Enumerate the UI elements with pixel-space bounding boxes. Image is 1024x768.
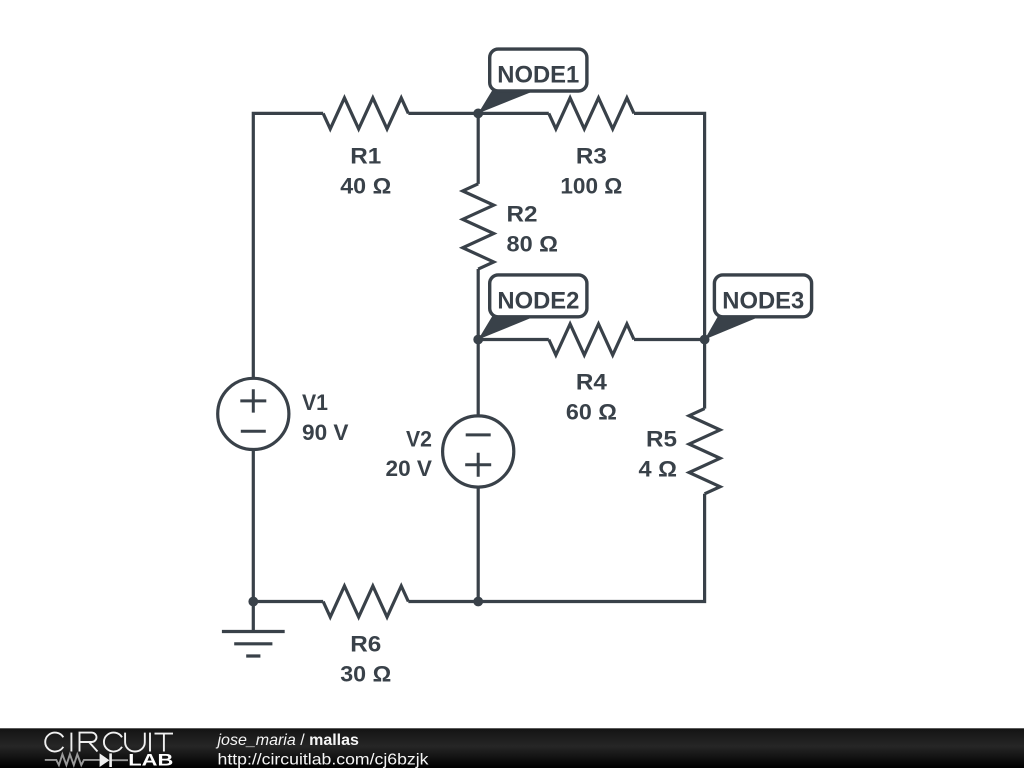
svg-text:http://circuitlab.com/cj6bzjk: http://circuitlab.com/cj6bzjk — [218, 751, 430, 768]
svg-text:20 V: 20 V — [386, 456, 433, 481]
wire NODE2 to R4 — [478, 338, 549, 341]
callout tail NODE1 — [478, 90, 531, 114]
svg-text:90 V: 90 V — [302, 420, 349, 445]
wire R1 to node NODE1 — [408, 112, 478, 115]
svg-text:V1: V1 — [302, 390, 328, 415]
wire NODE3 down to R5 — [703, 340, 706, 409]
ground symbol — [222, 602, 285, 657]
svg-text:NODE2: NODE2 — [497, 287, 579, 314]
svg-text:NODE3: NODE3 — [722, 287, 804, 314]
callout tail NODE2 — [478, 316, 531, 340]
V1 plus sign — [240, 389, 266, 412]
wire V2 to bottom wire — [477, 487, 480, 601]
svg-text:NODE1: NODE1 — [497, 61, 579, 88]
callout box NODE3 — [714, 275, 811, 317]
V1 minus sign — [241, 430, 266, 433]
wire R5 to bottom-right corner to bottom mid node — [478, 494, 704, 602]
CircuitLab logo diode cathode bar — [109, 753, 112, 767]
CircuitLab logo diode triangle — [100, 753, 110, 767]
resistor R3 — [549, 98, 634, 129]
wire bottom mid node to R6 — [408, 600, 478, 603]
svg-text:100 Ω: 100 Ω — [560, 173, 622, 198]
callout tail NODE3 — [705, 316, 757, 340]
wire R4 to NODE3 — [634, 338, 705, 341]
node junction dot NODE1 — [473, 109, 483, 119]
footer bar — [0, 728, 1024, 768]
V2 plus sign — [465, 453, 491, 477]
node junction dot NODE2 — [473, 335, 483, 345]
wire NODE2 down to V2 — [477, 340, 480, 416]
wire R3 to top-right corner down to NODE3 — [634, 113, 705, 339]
svg-text:60 Ω: 60 Ω — [566, 400, 617, 425]
svg-text:40 Ω: 40 Ω — [340, 173, 391, 198]
voltage source V1 circle — [218, 378, 289, 449]
wire V1 bottom to bottom-left node — [252, 450, 255, 602]
svg-text:4 Ω: 4 Ω — [639, 457, 678, 482]
resistor R1 — [323, 98, 408, 129]
svg-text:80 Ω: 80 Ω — [507, 232, 559, 257]
resistor R4 — [549, 324, 634, 355]
wire NODE1 to R3 — [478, 112, 549, 115]
callout box NODE1 — [490, 49, 587, 91]
wire top-left (V1 top to R1) — [253, 113, 323, 378]
wire NODE1 down to R2 — [477, 113, 480, 183]
svg-text:R3: R3 — [576, 143, 607, 168]
svg-text:LAB: LAB — [128, 751, 173, 768]
resistor R6 — [323, 586, 408, 617]
resistor R2 — [463, 184, 494, 269]
callout box NODE2 — [490, 275, 587, 317]
wire R6 to bottom-left node — [253, 600, 323, 603]
resistor R5 — [689, 409, 720, 494]
node junction dot bottom-mid — [473, 597, 483, 607]
CircuitLab logo CIRCUIT letters — [45, 733, 173, 752]
node junction dot NODE3 — [700, 335, 710, 345]
svg-text:R5: R5 — [646, 427, 677, 452]
voltage source V2 circle — [443, 416, 514, 487]
svg-text:R6: R6 — [350, 632, 381, 657]
wire R2 to NODE2 — [477, 269, 480, 339]
svg-text:V2: V2 — [406, 427, 432, 452]
svg-text:jose_maria / mallas: jose_maria / mallas — [216, 732, 360, 749]
CircuitLab logo resistor-diode squiggle — [45, 754, 128, 765]
svg-text:R1: R1 — [350, 143, 381, 168]
node junction dot bottom-left — [248, 597, 258, 607]
svg-text:R4: R4 — [576, 370, 608, 395]
V2 minus sign — [466, 433, 491, 436]
svg-text:R2: R2 — [507, 202, 538, 227]
svg-text:30 Ω: 30 Ω — [340, 662, 391, 687]
